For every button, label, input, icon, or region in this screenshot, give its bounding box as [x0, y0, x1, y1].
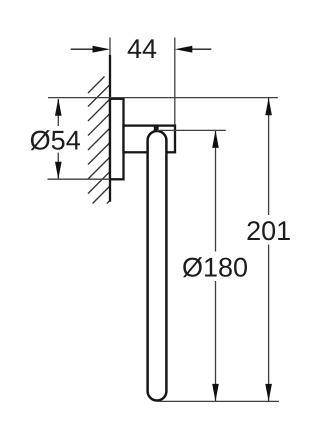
svg-text:201: 201	[246, 216, 291, 246]
dim 44 right arrow tail	[192, 48, 211, 50]
diam 180 top extension line	[157, 129, 226, 131]
top extension line (201 / diam 54 upper datum)	[48, 97, 278, 99]
diam 54 dimension line	[57, 99, 59, 126]
ring holder body	[124, 126, 176, 153]
svg-text:44: 44	[127, 34, 157, 64]
diam 54 bottom arrowhead	[55, 162, 62, 180]
wall edge line	[109, 55, 111, 202]
dim 201 bottom arrowhead	[265, 384, 272, 402]
towel ring (stadium outline)	[148, 131, 167, 401]
wall plate (rosette)	[110, 99, 124, 180]
diam 180 bottom arrowhead	[212, 384, 219, 402]
svg-text:Ø180: Ø180	[182, 253, 248, 283]
dim 201 top arrowhead	[265, 98, 272, 116]
dim 44 left arrowhead	[93, 46, 111, 53]
dim 44 left arrow tail	[71, 48, 93, 50]
ring-to-holder neck	[154, 126, 159, 131]
wall hatching	[88, 77, 110, 204]
diam 180 dimension line	[215, 130, 217, 251]
bottom extension line (201 / diam 180 lower datum)	[157, 400, 279, 402]
dim 201 dimension line	[268, 98, 270, 215]
dim 44 right arrowhead	[175, 46, 193, 53]
svg-text:Ø54: Ø54	[30, 126, 81, 156]
diam 180 top arrowhead	[212, 130, 219, 148]
dim 44 right extension line	[174, 38, 176, 126]
diam 54 lower extension line	[48, 178, 111, 180]
dim 44 left extension line	[109, 38, 111, 56]
diam 54 top arrowhead	[55, 98, 62, 116]
